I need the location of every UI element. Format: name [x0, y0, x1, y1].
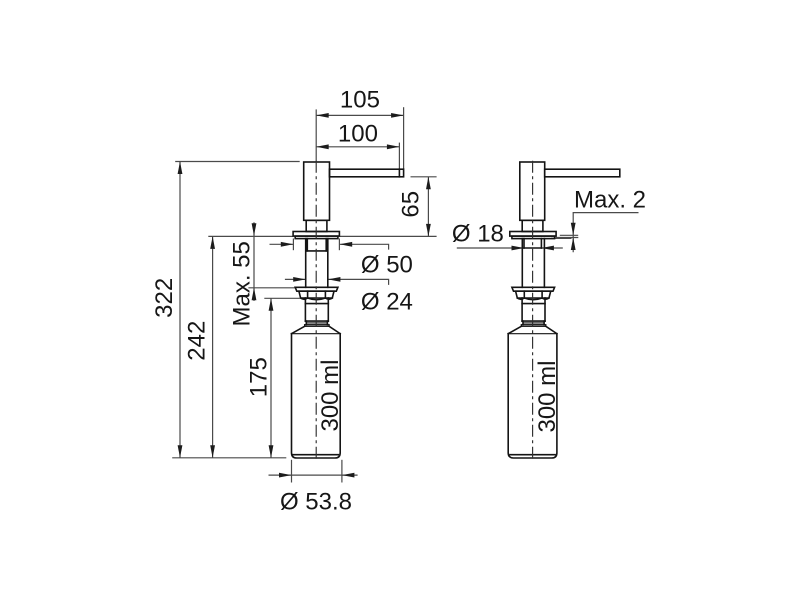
svg-text:Ø 18: Ø 18	[452, 221, 504, 248]
svg-text:100: 100	[338, 121, 378, 148]
svg-text:322: 322	[151, 278, 178, 318]
svg-text:Ø 53.8: Ø 53.8	[280, 489, 352, 516]
svg-text:Max. 2: Max. 2	[574, 187, 646, 214]
svg-text:65: 65	[397, 191, 424, 218]
svg-text:105: 105	[340, 87, 380, 114]
svg-text:Ø 24: Ø 24	[361, 289, 413, 316]
svg-text:300 ml: 300 ml	[534, 360, 561, 432]
svg-text:300 ml: 300 ml	[317, 359, 344, 431]
svg-text:242: 242	[184, 321, 211, 361]
svg-text:Ø 50: Ø 50	[361, 252, 413, 279]
svg-text:Max. 55: Max. 55	[228, 241, 255, 326]
svg-text:175: 175	[246, 357, 273, 397]
